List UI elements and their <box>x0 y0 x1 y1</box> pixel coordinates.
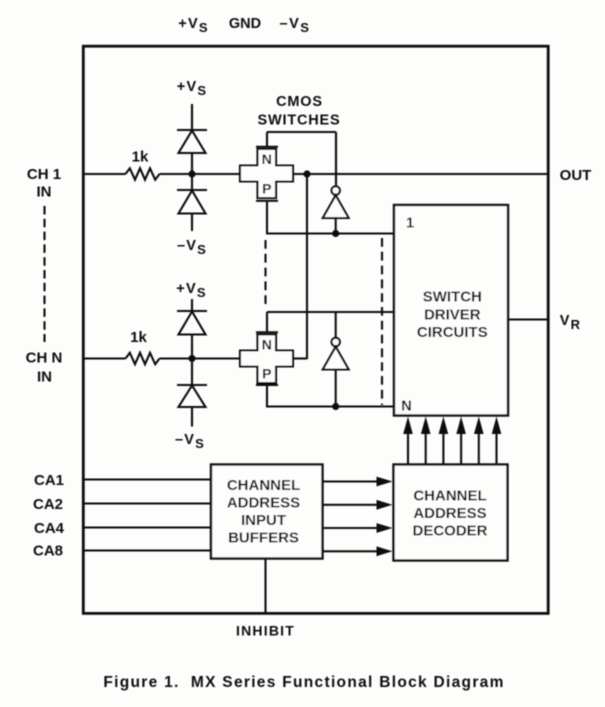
wire buffer to decoder bit8 with arrow <box>323 546 393 556</box>
label CA8 <box>33 543 63 560</box>
wire S1 output to OUT <box>293 173 549 175</box>
net -VS top label <box>280 16 311 35</box>
net +VS ch1 clamp label <box>177 79 207 98</box>
wire decoder to driver arrow 6 <box>492 417 502 465</box>
wire S1 N-gate overhead to inverter U1 <box>267 132 336 186</box>
net -VS ch1 clamp label <box>177 238 207 257</box>
wire driver line 1 to switch driver box <box>266 232 394 234</box>
wire decoder to driver arrow 1 <box>403 417 413 465</box>
svg-text:N: N <box>262 337 272 353</box>
CMOS switch S1 body (cross) <box>240 149 293 198</box>
junction dot U1 on driver line 1 <box>332 230 339 237</box>
wire S2 N-gate line to switch driver box <box>267 311 394 313</box>
wire +VS to D1 <box>191 104 193 130</box>
svg-text:CH 1: CH 1 <box>27 166 61 183</box>
wire buffer to decoder bit2 with arrow <box>323 500 393 510</box>
resistor R2 1k <box>126 329 160 364</box>
wire decoder to driver arrow 3 <box>439 417 449 465</box>
net +VS chN clamp label <box>176 281 206 300</box>
label CA4 <box>34 520 65 537</box>
wire buffer to decoder bit1 with arrow <box>323 477 393 487</box>
diode D2 (clamp to -VS) <box>177 190 207 214</box>
net GND top label <box>229 16 261 32</box>
wire D4 to -VS <box>191 407 193 427</box>
label CA2 <box>33 496 63 513</box>
wire R1 to switch <box>160 173 241 175</box>
node CH 1 IN label <box>27 166 61 201</box>
svg-text:CHANNEL: CHANNEL <box>227 477 300 494</box>
svg-text:CMOS: CMOS <box>276 94 323 110</box>
wire CA8 <box>84 549 212 551</box>
svg-text:CA4: CA4 <box>34 520 65 537</box>
dashed line between CH1 and CHN inputs <box>43 206 45 342</box>
wire CA1 <box>84 478 212 480</box>
wire CA2 <box>84 502 212 504</box>
CMOS switch S2 body (cross) <box>240 335 293 384</box>
inverter U2 (bubble on top) <box>323 338 349 407</box>
svg-text:ADDRESS: ADDRESS <box>413 505 486 522</box>
wire S2 output to bus <box>293 357 307 359</box>
label VR <box>560 313 581 332</box>
wire VR output <box>508 318 549 320</box>
wire decoder to driver arrow 5 <box>474 417 484 465</box>
svg-text:N: N <box>262 151 272 167</box>
svg-text:INPUT: INPUT <box>241 512 286 529</box>
wire CH1 input <box>84 173 126 175</box>
net +VS top label <box>178 16 208 35</box>
diode D3 (clamp to +VS) <box>177 311 207 335</box>
resistor R1 1k <box>126 149 160 180</box>
node CH N IN label <box>26 350 63 386</box>
svg-text:SWITCHES: SWITCHES <box>258 113 341 129</box>
wire CA4 <box>84 526 212 528</box>
svg-text:OUT: OUT <box>560 167 592 184</box>
wire R2 to switch <box>160 357 241 359</box>
svg-text:SWITCH: SWITCH <box>423 289 482 306</box>
outer block boundary box <box>83 46 548 613</box>
svg-text:N: N <box>401 399 411 415</box>
block U3 SWITCH DRIVER CIRCUITS <box>394 205 508 416</box>
wire node A to D2 <box>191 174 193 190</box>
svg-text:1: 1 <box>406 216 414 232</box>
wire inverter U2 input drop <box>335 312 337 338</box>
svg-text:P: P <box>262 366 271 382</box>
wire node B to D4 <box>191 359 193 386</box>
wire D2 to -VS <box>191 214 193 232</box>
wire decoder to driver arrow 4 <box>456 417 466 465</box>
wire INHIBIT <box>264 559 266 614</box>
svg-text:Figure 1. MX Series Functiona: Figure 1. MX Series Functional Block Dia… <box>103 674 504 691</box>
label INHIBIT <box>236 623 295 639</box>
label CA1 <box>34 472 64 489</box>
label OUT <box>560 167 592 184</box>
dashed repeat line driver lines <box>381 238 383 405</box>
svg-text:ADDRESS: ADDRESS <box>227 495 300 512</box>
svg-text:1k: 1k <box>132 149 149 166</box>
svg-text:DRIVER: DRIVER <box>424 307 481 324</box>
svg-text:CH N: CH N <box>26 350 63 367</box>
svg-text:CA8: CA8 <box>33 543 63 560</box>
svg-text:CA1: CA1 <box>34 472 64 489</box>
wire output bus vertical <box>306 174 308 359</box>
svg-text:CHANNEL: CHANNEL <box>413 488 486 505</box>
S2 P-gate bracket <box>256 385 278 407</box>
node B junction dot chN clamp <box>188 355 195 362</box>
node A junction dot ch1 clamp <box>188 170 195 177</box>
S1 N-gate bracket <box>256 132 278 147</box>
svg-text:GND: GND <box>229 16 261 32</box>
diode D4 (clamp to -VS) <box>177 385 207 407</box>
svg-text:CA2: CA2 <box>33 496 63 513</box>
label CMOS SWITCHES <box>258 94 341 129</box>
block U4 CHANNEL ADDRESS INPUT BUFFERS <box>211 465 323 559</box>
svg-text:1k: 1k <box>130 329 147 346</box>
diode D1 (clamp to +VS) <box>177 130 207 153</box>
svg-text:BUFFERS: BUFFERS <box>228 530 299 547</box>
S2 N-gate bracket <box>256 312 278 332</box>
net -VS chN clamp label <box>175 432 205 451</box>
svg-text:P: P <box>262 181 271 197</box>
junction dot output bus <box>303 170 310 177</box>
block U5 CHANNEL ADDRESS DECODER <box>394 465 508 561</box>
wire decoder to driver arrow 2 <box>421 417 431 465</box>
junction dot U2 on driver line N <box>332 403 339 410</box>
caption Figure 1 <box>103 674 504 691</box>
wire CHN input <box>84 357 126 359</box>
svg-text:INHIBIT: INHIBIT <box>236 623 295 639</box>
svg-text:IN: IN <box>37 369 52 386</box>
svg-text:IN: IN <box>37 184 52 201</box>
S1 P-gate bracket <box>256 201 278 234</box>
wire D3 to node B <box>191 335 193 359</box>
dashed repeat line between channels <box>264 240 266 309</box>
inverter U1 (bubble on top) <box>323 186 349 233</box>
wire driver line N to switch driver box <box>266 405 394 407</box>
wire D1 to node A <box>191 153 193 174</box>
svg-text:CIRCUITS: CIRCUITS <box>417 324 488 341</box>
svg-text:DECODER: DECODER <box>412 523 487 540</box>
wire buffer to decoder bit4 with arrow <box>323 523 393 533</box>
wire +VS to D3 <box>191 299 193 311</box>
